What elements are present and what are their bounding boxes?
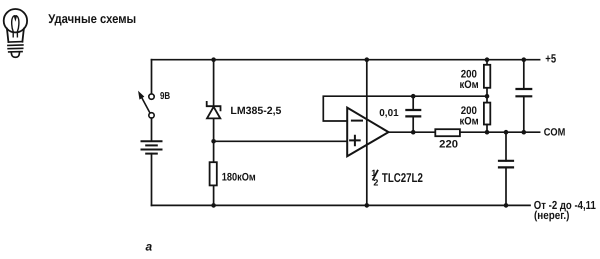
svg-text:COM: COM (544, 127, 566, 139)
node: C1 bottom / output (411, 130, 416, 135)
wire: bottom rail (152, 204, 531, 206)
resistor R2 220 (435, 129, 460, 136)
wire: top rail to switch (151, 60, 153, 94)
node: top rail / C2 (522, 57, 527, 62)
battery GB1 (9V) (142, 141, 162, 153)
zener diode VD1 LM385-2,5 (207, 102, 221, 119)
wire: resistor R1 to bottom rail (213, 187, 215, 206)
resistor R3 200кОм (484, 65, 490, 88)
node: top rail / divider (485, 57, 490, 62)
wire: feedback from - input to divider midpoint (323, 96, 487, 121)
svg-text:9В: 9В (160, 91, 170, 102)
svg-text:180кОм: 180кОм (222, 171, 256, 183)
op-amp U1 (347, 108, 388, 157)
wire: battery to bottom rail (151, 154, 153, 206)
resistor R4 200кОм (484, 103, 490, 125)
op-amp U1 plus sign (350, 136, 360, 146)
wire: node to resistor R1 (213, 141, 215, 162)
svg-text:0,01: 0,01 (379, 108, 399, 119)
svg-text:кОм: кОм (460, 116, 479, 128)
resistor R1 180кОм (210, 162, 217, 185)
wire: top rail to R3 (486, 60, 488, 65)
node: C2 / COM (522, 130, 527, 135)
svg-text:Удачные схемы: Удачные схемы (48, 11, 136, 26)
node: junction bottom rail / R1 (211, 203, 216, 208)
node: supply top (365, 57, 370, 62)
wire: zener to node (213, 118, 215, 141)
capacitor C2 (+5 to COM) (517, 60, 532, 133)
wire: op-amp supply line (366, 60, 368, 206)
label: ½TLC27L2 (371, 168, 378, 187)
node: feedback / divider junction (485, 94, 490, 99)
svg-text:LM385-2,5: LM385-2,5 (230, 105, 281, 117)
svg-text:кОм: кОм (460, 79, 479, 91)
wire: top rail (+5 net) (152, 59, 540, 61)
node: COM / C3 (504, 130, 509, 135)
svg-text:а: а (146, 240, 153, 254)
node: feedback / C1 junction (411, 94, 416, 99)
capacitor C3 (COM to negative rail) (499, 132, 513, 205)
wire: node to op-amp + input (214, 140, 348, 142)
capacitor C1 0,01 (406, 96, 420, 132)
svg-text:(нерег.): (нерег.) (534, 210, 570, 222)
wire: R4 to COM line (486, 125, 488, 133)
switch S1 (139, 92, 155, 118)
node: reference node (211, 139, 216, 144)
wire: switch to battery (151, 118, 153, 141)
wire: R3 to R4 (486, 88, 488, 103)
svg-text:220: 220 (439, 139, 458, 151)
wire: top rail to zener (213, 60, 215, 106)
node: junction top rail / reference branch (211, 57, 216, 62)
wire: op-amp output / COM line (389, 131, 540, 133)
node: C3 / bottom rail (504, 203, 509, 208)
svg-text:TLC27L2: TLC27L2 (382, 170, 423, 185)
node: supply bottom (365, 203, 370, 208)
op-amp U1 minus sign (352, 120, 362, 122)
lightbulb icon (4, 9, 27, 57)
svg-text:+5: +5 (545, 52, 556, 66)
node: R4 / COM (485, 130, 490, 135)
